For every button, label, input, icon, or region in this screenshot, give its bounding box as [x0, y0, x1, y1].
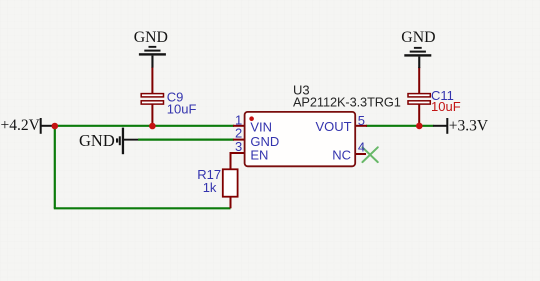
svg-text:GND: GND — [79, 131, 115, 150]
svg-text:5: 5 — [358, 113, 365, 128]
svg-text:AP2112K-3.3TRG1: AP2112K-3.3TRG1 — [293, 94, 401, 109]
svg-text:+4.2V: +4.2V — [1, 117, 41, 134]
svg-text:EN: EN — [250, 148, 268, 163]
svg-text:VOUT: VOUT — [315, 119, 351, 134]
svg-text:GND: GND — [134, 29, 168, 46]
svg-text:GND: GND — [401, 29, 435, 46]
svg-text:4: 4 — [358, 139, 365, 154]
svg-text:10uF: 10uF — [167, 102, 197, 117]
svg-text:3: 3 — [235, 139, 242, 154]
svg-text:+3.3V: +3.3V — [449, 118, 489, 135]
svg-text:10uF: 10uF — [431, 99, 461, 114]
svg-text:VIN: VIN — [250, 120, 272, 135]
svg-text:NC: NC — [332, 147, 351, 162]
svg-text:1k: 1k — [203, 180, 217, 195]
